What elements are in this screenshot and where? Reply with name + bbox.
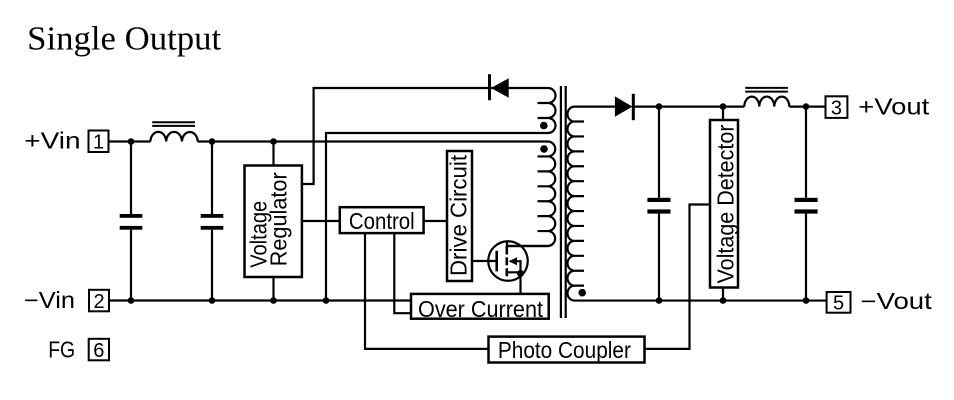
svg-text:Regulator: Regulator [265,172,291,266]
svg-text:Voltage Detector: Voltage Detector [713,124,739,283]
svg-text:−Vin: −Vin [24,287,75,313]
svg-text:+Vin: +Vin [24,128,80,154]
svg-text:5: 5 [833,293,844,315]
svg-text:Single Output: Single Output [27,21,222,58]
svg-text:FG: FG [48,337,75,363]
svg-text:Photo Coupler: Photo Coupler [498,337,631,363]
svg-text:Drive Circuit: Drive Circuit [446,154,472,276]
svg-text:6: 6 [93,340,104,362]
svg-text:2: 2 [93,291,104,313]
svg-text:+Vout: +Vout [858,93,930,119]
svg-text:1: 1 [93,132,104,154]
svg-text:Over Current: Over Current [418,296,544,322]
svg-text:−Vout: −Vout [861,288,933,314]
svg-text:Control: Control [349,208,415,234]
svg-text:3: 3 [831,97,842,119]
